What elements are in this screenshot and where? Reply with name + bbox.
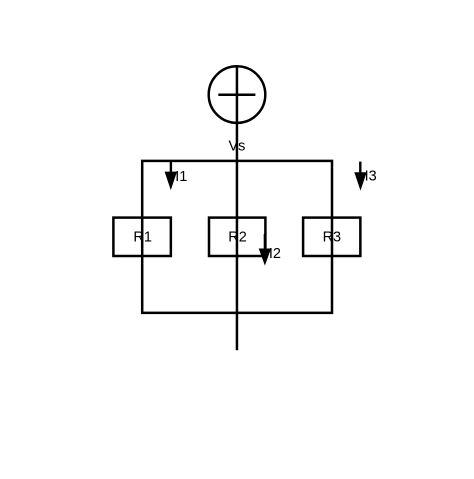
svg-text:I1: I1 (175, 169, 187, 185)
svg-text:I3: I3 (365, 169, 377, 185)
resistor R1 box (113, 218, 170, 256)
voltage source U1 circle (209, 66, 266, 123)
svg-text:R3: R3 (323, 229, 342, 245)
wire center vertical from source top through R2 to bottom tail (236, 66, 239, 350)
svg-text:I2: I2 (269, 246, 281, 262)
svg-text:Vs: Vs (228, 139, 245, 155)
voltage source plus bar (218, 93, 255, 96)
current arrow I3 (354, 162, 366, 191)
svg-text:R2: R2 (228, 229, 247, 245)
current arrow I2 (259, 234, 271, 266)
wire outer loop rectangle (top rail, left wire, right wire, bottom rail) (142, 161, 332, 313)
resistor R3 box (303, 218, 360, 256)
svg-text:R1: R1 (133, 229, 152, 245)
resistor R2 box (209, 218, 265, 256)
current arrow I1 (165, 161, 177, 190)
